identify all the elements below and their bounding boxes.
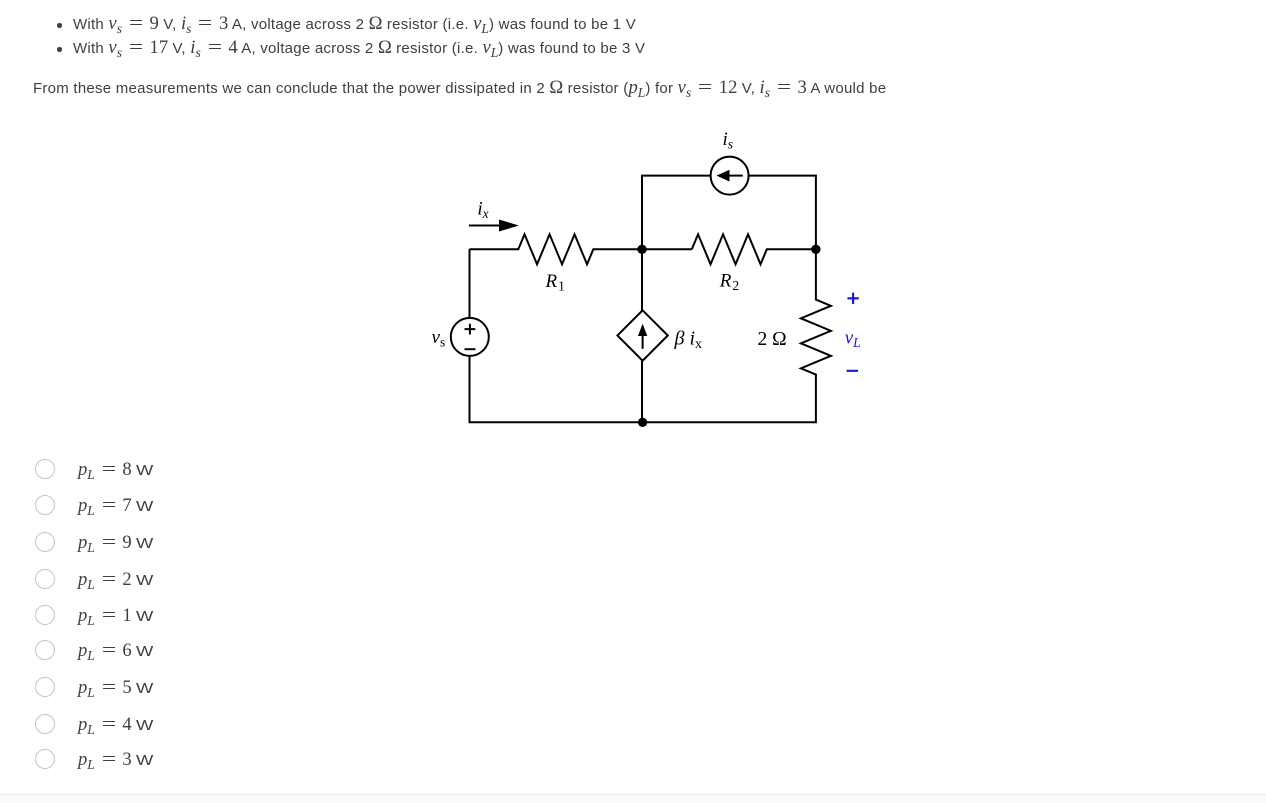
svg-text:R1: R1 <box>545 271 565 294</box>
svg-text:is: is <box>723 129 734 152</box>
svg-text:vL: vL <box>845 328 861 351</box>
voltage source vs <box>451 318 489 356</box>
svg-text:ix: ix <box>477 199 488 222</box>
node junction (center) <box>637 245 646 254</box>
svg-text:vs: vs <box>432 327 446 350</box>
paragraph <box>33 78 886 103</box>
node junction (right) <box>811 245 820 254</box>
resistor R2 and wire to right node <box>692 234 816 264</box>
bullet 1 <box>57 23 62 28</box>
options <box>35 459 55 479</box>
svg-text:R2: R2 <box>719 271 739 294</box>
svg-text:β ix: β ix <box>674 328 703 353</box>
circuit schematic <box>420 120 890 435</box>
wire main horizontal with resistor R1 <box>470 234 692 264</box>
dependent source beta ix (diamond) <box>617 310 667 360</box>
resistor 2 ohm (zigzag inside right vertical) <box>470 176 831 423</box>
label vL plus <box>847 293 858 304</box>
current source is <box>711 157 749 195</box>
divider <box>0 794 1266 795</box>
ix current arrow <box>469 225 503 227</box>
label vL minus <box>847 370 858 372</box>
svg-text:2 Ω: 2 Ω <box>758 329 787 350</box>
bullet 2 <box>57 47 62 52</box>
node junction (bottom) <box>638 418 647 427</box>
